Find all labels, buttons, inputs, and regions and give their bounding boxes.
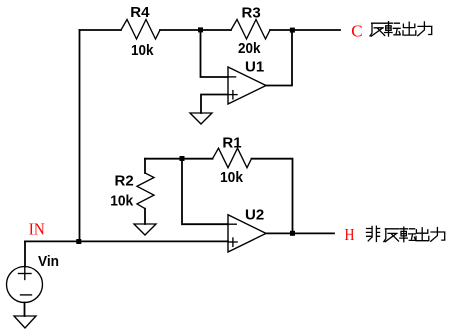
kanji 出 (C line) bbox=[403, 22, 416, 35]
voltage source Vin circle bbox=[7, 267, 43, 303]
svg-text:R2: R2 bbox=[115, 172, 134, 189]
svg-text:H: H bbox=[345, 225, 355, 244]
wire R2 stem bbox=[144, 159, 146, 173]
wire Vin to ground bbox=[24, 303, 26, 317]
U2 minus mark bbox=[229, 223, 236, 225]
svg-text:10k: 10k bbox=[131, 42, 154, 59]
svg-text:R4: R4 bbox=[130, 4, 150, 21]
kanji group: C output 反転出力 bbox=[370, 22, 432, 36]
U1 minus mark bbox=[229, 76, 235, 78]
wire left rail bbox=[79, 30, 81, 241]
junction node U2 out bbox=[290, 231, 295, 236]
svg-text:U1: U1 bbox=[245, 59, 264, 76]
junction node R1-R2 bbox=[180, 156, 185, 161]
resistor R1 bbox=[213, 148, 252, 168]
U1 plus mark bbox=[229, 94, 237, 96]
Vin plus sign bbox=[19, 273, 32, 275]
wire R3 to output C bbox=[270, 29, 340, 31]
wire R1 right down to U2 output bbox=[252, 159, 293, 234]
kanji 転 (C line) bbox=[385, 22, 401, 36]
kanji 力 (H line) bbox=[431, 228, 445, 242]
U2 plus mark bbox=[229, 241, 237, 243]
svg-text:10k: 10k bbox=[220, 169, 244, 186]
kanji 転 (H line) bbox=[400, 227, 416, 242]
svg-text:R1: R1 bbox=[222, 135, 241, 152]
svg-text:R3: R3 bbox=[242, 4, 261, 21]
wire top rail left segment bbox=[80, 29, 122, 31]
resistor R4 bbox=[121, 20, 160, 40]
wire between R4 and R3 bbox=[160, 29, 231, 31]
ground under Vin bbox=[14, 316, 36, 328]
junction node R4-R3 bbox=[198, 27, 203, 32]
wire U2 inverting input drop bbox=[182, 159, 228, 225]
Vin minus sign bbox=[21, 294, 32, 296]
svg-text:U2: U2 bbox=[245, 207, 264, 224]
svg-text:IN: IN bbox=[29, 219, 45, 238]
wire U1 output feedback bbox=[266, 30, 292, 86]
svg-text:Vin: Vin bbox=[38, 253, 59, 270]
op-amp U2 bbox=[228, 215, 266, 252]
svg-text:10k: 10k bbox=[110, 192, 134, 209]
wire U1 inverting input drop bbox=[201, 30, 229, 77]
kanji 出 (H line) bbox=[416, 228, 429, 241]
junction node R3 out bbox=[290, 28, 295, 33]
svg-text:C: C bbox=[351, 21, 362, 40]
wire IN rail bbox=[25, 240, 228, 242]
junction node IN bbox=[76, 239, 81, 244]
wire R2 to ground bbox=[144, 209, 146, 224]
kanji 反 (C line) bbox=[370, 23, 385, 36]
wire R1 row left bbox=[145, 158, 213, 160]
wire Vin stem bbox=[24, 241, 26, 266]
kanji 非 (H line) bbox=[366, 226, 379, 241]
kanji 反 (H line) bbox=[384, 229, 399, 242]
ground under U1 bbox=[190, 113, 212, 124]
kanji group: H output 非反転出力 bbox=[366, 226, 444, 242]
resistor R3 bbox=[231, 20, 270, 40]
op-amp U1 bbox=[228, 67, 266, 104]
resistor R2 bbox=[137, 173, 154, 209]
wire U2 output bbox=[266, 232, 334, 234]
kanji 力 (C line) bbox=[418, 22, 432, 36]
ground under R2 bbox=[134, 224, 156, 235]
wire U1 noninverting to ground bbox=[201, 95, 228, 114]
svg-text:20k: 20k bbox=[238, 40, 261, 57]
